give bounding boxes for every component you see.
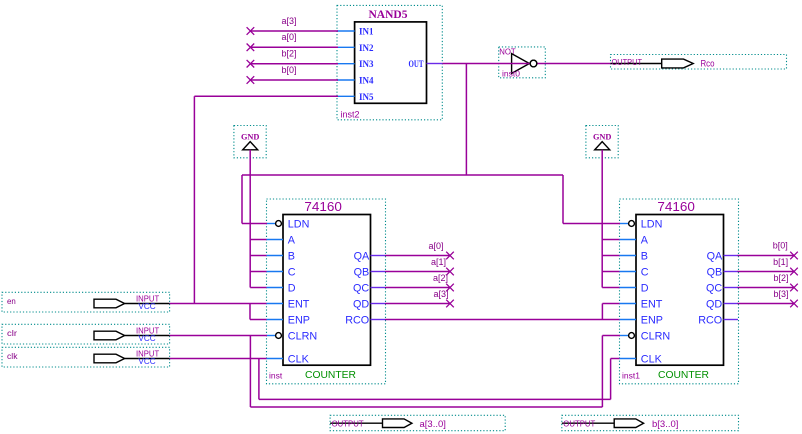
svg-text:QC: QC bbox=[353, 282, 369, 294]
wire a[0] from left counter bbox=[385, 241, 454, 259]
svg-text:ENP: ENP bbox=[288, 314, 310, 326]
wire clk to CLK bbox=[170, 359, 620, 400]
svg-text:A: A bbox=[288, 234, 296, 246]
svg-text:RCO: RCO bbox=[698, 314, 722, 326]
wire GND left to ABCD bbox=[250, 150, 266, 288]
counter 74160 inst (left) bbox=[267, 199, 386, 384]
svg-text:inst0: inst0 bbox=[502, 68, 520, 78]
svg-text:IN3: IN3 bbox=[359, 60, 374, 70]
wire b[0] to NAND bbox=[247, 65, 338, 84]
svg-text:IN2: IN2 bbox=[359, 44, 374, 54]
wire OUT branch down bbox=[465, 64, 467, 176]
svg-text:a[1]: a[1] bbox=[431, 257, 446, 267]
svg-text:b[2]: b[2] bbox=[281, 49, 296, 59]
svg-text:D: D bbox=[288, 282, 296, 294]
output port a[3..0] bbox=[330, 415, 505, 430]
wire a[1] from left counter bbox=[385, 257, 454, 275]
svg-text:CLRN: CLRN bbox=[288, 330, 317, 342]
svg-text:CLK: CLK bbox=[288, 353, 310, 365]
svg-text:VCC: VCC bbox=[138, 356, 155, 366]
svg-text:OUTPUT: OUTPUT bbox=[332, 419, 364, 429]
wire LDN left drop bbox=[242, 175, 267, 224]
wire b[1] from right counter bbox=[738, 257, 798, 275]
wire b[2] from right counter bbox=[738, 273, 798, 291]
svg-text:ENT: ENT bbox=[641, 298, 663, 310]
svg-text:D: D bbox=[641, 282, 649, 294]
svg-text:IN4: IN4 bbox=[359, 77, 374, 87]
svg-text:RCO: RCO bbox=[345, 314, 369, 326]
input port clk bbox=[2, 347, 170, 367]
svg-text:74160: 74160 bbox=[657, 199, 695, 214]
svg-text:en: en bbox=[7, 296, 16, 306]
svg-text:IN5: IN5 bbox=[359, 93, 374, 103]
svg-text:QA: QA bbox=[354, 250, 370, 262]
svg-text:VCC: VCC bbox=[138, 301, 155, 311]
svg-text:OUT: OUT bbox=[409, 60, 424, 70]
svg-text:COUNTER: COUNTER bbox=[305, 369, 356, 381]
wire b[2] to NAND bbox=[247, 49, 338, 68]
svg-text:QD: QD bbox=[706, 298, 722, 310]
svg-text:QA: QA bbox=[707, 250, 723, 262]
svg-text:QB: QB bbox=[354, 266, 370, 278]
svg-text:a[3]: a[3] bbox=[433, 289, 448, 299]
wire a[3] to NAND bbox=[247, 16, 338, 35]
svg-text:b[2]: b[2] bbox=[773, 273, 788, 283]
svg-text:LDN: LDN bbox=[288, 218, 310, 230]
ground GND left bbox=[234, 126, 266, 158]
svg-text:b[3]: b[3] bbox=[773, 289, 788, 299]
svg-text:ENT: ENT bbox=[288, 298, 310, 310]
wire a[3] from left counter bbox=[385, 289, 454, 307]
wire RCO to right ENT ENP bbox=[385, 304, 620, 320]
svg-text:inst: inst bbox=[269, 371, 283, 381]
svg-text:IN1: IN1 bbox=[359, 28, 374, 38]
wire a[0] to NAND bbox=[247, 32, 338, 51]
input port en bbox=[2, 292, 170, 312]
svg-text:COUNTER: COUNTER bbox=[658, 369, 709, 381]
svg-text:B: B bbox=[288, 250, 295, 262]
svg-text:GND: GND bbox=[593, 132, 612, 142]
wire GND right to ABCD bbox=[602, 150, 619, 288]
svg-text:b[1]: b[1] bbox=[773, 257, 788, 267]
output port b[3..0] bbox=[562, 415, 739, 430]
svg-text:C: C bbox=[641, 266, 649, 278]
svg-text:a[0]: a[0] bbox=[428, 241, 443, 251]
svg-text:b[0]: b[0] bbox=[773, 241, 788, 251]
svg-text:ENP: ENP bbox=[641, 314, 663, 326]
wire b[0] from right counter bbox=[738, 241, 798, 260]
svg-text:clk: clk bbox=[7, 351, 18, 361]
wire NAND OUT to Rco bbox=[442, 60, 610, 67]
svg-text:inst2: inst2 bbox=[341, 110, 360, 120]
svg-text:QC: QC bbox=[706, 282, 722, 294]
output port Rco bbox=[611, 55, 787, 70]
ground GND right bbox=[586, 126, 618, 158]
input port clr bbox=[2, 324, 170, 344]
inverter NOT inst0 bbox=[499, 47, 546, 79]
svg-text:OUTPUT: OUTPUT bbox=[563, 419, 595, 429]
svg-text:GND: GND bbox=[241, 132, 260, 142]
svg-text:NAND5: NAND5 bbox=[369, 9, 408, 21]
svg-text:A: A bbox=[641, 234, 649, 246]
svg-text:CLK: CLK bbox=[641, 353, 663, 365]
wire LDN right drop bbox=[563, 175, 620, 224]
svg-text:a[2]: a[2] bbox=[433, 273, 448, 283]
svg-text:B: B bbox=[641, 250, 648, 262]
counter 74160 inst1 (right) bbox=[620, 199, 739, 384]
svg-text:QB: QB bbox=[707, 266, 723, 278]
svg-text:QD: QD bbox=[353, 298, 369, 310]
svg-text:inst1: inst1 bbox=[622, 371, 640, 381]
svg-text:OUTPUT: OUTPUT bbox=[612, 57, 643, 67]
wire LDN bus horizontal bbox=[242, 174, 563, 176]
wire clr to CLRN bbox=[170, 336, 620, 408]
wire b[3] from right counter bbox=[738, 289, 798, 307]
NAND gate U1 NAND5 inst2 bbox=[337, 5, 442, 119]
svg-text:b[0]: b[0] bbox=[281, 65, 296, 75]
wire en to IN5 bbox=[194, 96, 338, 303]
svg-text:a[0]: a[0] bbox=[281, 32, 296, 42]
wire en to ENT ENP bbox=[170, 304, 267, 320]
svg-text:clr: clr bbox=[7, 328, 17, 338]
svg-text:b[3..0]: b[3..0] bbox=[652, 419, 678, 430]
wire a[2] from left counter bbox=[385, 273, 454, 291]
svg-text:Rco: Rco bbox=[701, 58, 715, 69]
svg-text:VCC: VCC bbox=[138, 333, 155, 343]
svg-text:LDN: LDN bbox=[641, 218, 663, 230]
svg-text:C: C bbox=[288, 266, 296, 278]
svg-text:CLRN: CLRN bbox=[641, 330, 670, 342]
svg-text:a[3]: a[3] bbox=[281, 16, 296, 26]
svg-text:74160: 74160 bbox=[304, 199, 342, 214]
svg-text:a[3..0]: a[3..0] bbox=[420, 419, 446, 430]
